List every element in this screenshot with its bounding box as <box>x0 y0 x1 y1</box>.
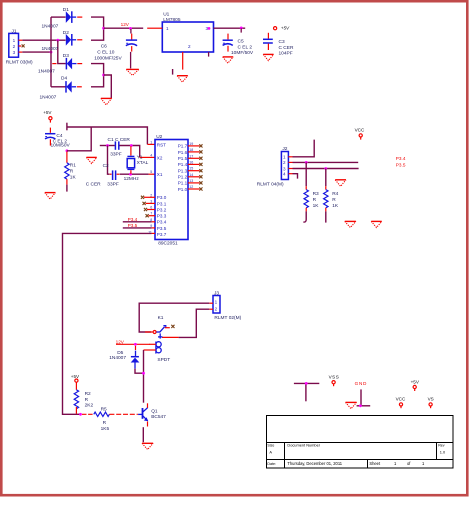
svg-text:R: R <box>103 420 107 426</box>
svg-text:Y1: Y1 <box>137 154 143 160</box>
wire red lead common <box>162 336 179 338</box>
diode D1 1N4007 <box>42 7 83 30</box>
svg-text:12V: 12V <box>121 22 130 27</box>
title block texts <box>267 443 446 466</box>
svg-text:X1: X1 <box>157 172 163 177</box>
wire branch down to D3 <box>58 40 66 63</box>
capacitor C5 C EL 2 10MF/50V <box>223 34 254 57</box>
capacitor C1 C CER 33PF (series) <box>100 137 131 158</box>
wire red lead into NC contact <box>145 331 153 333</box>
svg-text:C EL 2: C EL 2 <box>238 44 253 50</box>
svg-text:2: 2 <box>188 44 191 49</box>
diode D2 1N4007 <box>42 30 83 52</box>
svg-text:R4: R4 <box>332 191 338 197</box>
svg-text:Sheet: Sheet <box>369 461 381 466</box>
power symbol +5V (base pullup) <box>71 374 80 382</box>
pin P3.5 stub <box>152 227 155 229</box>
svg-text:RLMT 02(M): RLMT 02(M) <box>214 315 241 321</box>
crystal Y1 XTAL 12MHz <box>124 146 149 182</box>
pin 2 stub <box>288 161 292 163</box>
svg-text:C EL 10: C EL 10 <box>97 50 114 56</box>
svg-text:GND: GND <box>355 381 368 386</box>
node junction XTAL top <box>130 144 133 147</box>
svg-text:J1: J1 <box>12 28 17 34</box>
svg-text:R: R <box>332 197 336 203</box>
ground (floating 2, below R4) <box>371 221 382 227</box>
relay K1 coil <box>144 342 171 364</box>
svg-text:10M/50V: 10M/50V <box>51 143 71 149</box>
pin X2 stub <box>140 156 155 158</box>
svg-text:R1: R1 <box>70 162 76 168</box>
svg-text:C CER: C CER <box>279 45 294 51</box>
svg-text:+5V: +5V <box>71 374 80 379</box>
pin 1 stub <box>209 302 213 304</box>
svg-text:1K5: 1K5 <box>101 426 110 432</box>
wire J3 pin2 to relay common <box>179 309 210 337</box>
node junction +12V tap <box>102 27 105 30</box>
svg-text:1: 1 <box>13 38 16 43</box>
svg-text:C6: C6 <box>101 43 107 49</box>
svg-text:J3: J3 <box>214 290 219 296</box>
regulator U1 LM7805 <box>162 12 213 52</box>
wire D1 anode lead <box>51 16 66 18</box>
wire DC- bus (D3/D4 left plates) <box>91 64 104 87</box>
svg-text:1.0: 1.0 <box>440 450 446 455</box>
svg-text:U1: U1 <box>163 12 169 18</box>
node junction R1 top <box>66 149 69 152</box>
svg-text:P3.4: P3.4 <box>396 156 406 161</box>
ground (U1 pin2) <box>177 76 188 82</box>
pin 4 stub <box>288 173 292 175</box>
ground (C3) <box>263 54 273 60</box>
svg-text:Q1: Q1 <box>151 408 158 414</box>
U2 right port names <box>178 144 188 192</box>
power symbol VSS <box>329 375 340 387</box>
resistor R4 1K <box>324 169 339 223</box>
svg-text:P1.4: P1.4 <box>178 162 188 167</box>
node junction bridge minus <box>102 74 105 77</box>
svg-text:P1.1: P1.1 <box>178 181 188 186</box>
svg-text:R2: R2 <box>85 391 91 397</box>
wire P3.4 <box>123 221 152 223</box>
resistor R1 1K <box>65 152 77 192</box>
svg-text:P3.2: P3.2 <box>157 207 167 212</box>
svg-text:1N4007: 1N4007 <box>42 23 59 29</box>
svg-text:104PF: 104PF <box>279 51 293 57</box>
svg-text:R5: R5 <box>101 406 107 412</box>
wire P3.5 <box>123 227 152 229</box>
svg-text:3: 3 <box>13 50 16 55</box>
svg-text:1N4007: 1N4007 <box>42 46 59 52</box>
svg-text:2: 2 <box>283 160 286 165</box>
svg-text:Document Number: Document Number <box>287 443 320 448</box>
wire RST top run <box>67 127 147 144</box>
svg-text:P3.7: P3.7 <box>157 232 167 237</box>
svg-text:P1.5: P1.5 <box>178 156 188 161</box>
wire coil bottom to collector line <box>143 350 145 403</box>
svg-text:10MF/50V: 10MF/50V <box>231 50 254 56</box>
ground (bridge return) <box>101 98 112 105</box>
wire pin2 run <box>293 161 359 163</box>
svg-text:C4: C4 <box>56 133 62 139</box>
node junction C1/C2 branch <box>106 144 109 147</box>
svg-text:Rev: Rev <box>438 443 445 447</box>
node junction XTAL bottom <box>129 173 132 176</box>
svg-text:33PF: 33PF <box>110 152 122 158</box>
wire to ground <box>104 75 112 98</box>
svg-text:RST: RST <box>157 142 166 147</box>
svg-text:4: 4 <box>150 153 152 157</box>
wire pin3 to left bus <box>22 51 51 53</box>
svg-text:P3.5: P3.5 <box>128 223 138 228</box>
svg-text:C3: C3 <box>279 39 285 45</box>
pin X1 stub <box>149 173 155 175</box>
wire R1 junction to riser <box>67 127 91 151</box>
svg-text:A: A <box>269 450 272 455</box>
wire pin1 to D2 anode <box>22 39 65 41</box>
svg-text:K1: K1 <box>158 315 164 321</box>
svg-text:1N4007: 1N4007 <box>38 69 55 75</box>
wire DC+ bus (D1/D2 cathodes) <box>91 17 104 40</box>
wire pin4 hook <box>293 174 298 179</box>
svg-text:C5: C5 <box>238 38 244 44</box>
wire +12V feed to coil <box>116 343 150 345</box>
svg-text:R: R <box>85 397 89 403</box>
node junction pin3/bus <box>50 51 53 54</box>
power symbol +5V (reset RC) <box>43 110 52 123</box>
power symbol +5V (bottom) <box>411 379 420 391</box>
wire X1 net <box>120 173 149 175</box>
svg-text:+5V: +5V <box>43 110 52 115</box>
resistor R5 1K5 (series to base) <box>82 406 138 432</box>
ground (Q1 emitter) <box>142 443 153 449</box>
diode D5 1N4007 (flyback) <box>109 346 143 373</box>
ground (floating near J2) <box>335 180 346 187</box>
svg-text:R3: R3 <box>313 191 319 197</box>
U2 left port names <box>157 142 167 237</box>
svg-text:2: 2 <box>13 44 16 49</box>
pin 1 stub <box>19 39 23 41</box>
capacitor C6 C EL 10 1000MF/25V <box>94 29 137 69</box>
pin stub below box <box>208 52 210 57</box>
svg-text:R: R <box>313 197 317 203</box>
wire P3.7 long run to transistor base <box>63 233 152 414</box>
capacitor C3 C CER 104PF <box>263 33 294 57</box>
node junction C5 tap <box>240 27 243 30</box>
pin RST stub <box>147 143 155 145</box>
node junction pin1/D3 branch <box>56 39 59 42</box>
svg-text:1N4007: 1N4007 <box>40 95 57 101</box>
svg-text:P1.2: P1.2 <box>178 175 188 180</box>
ground (C6) <box>126 69 139 75</box>
svg-text:1N4007: 1N4007 <box>109 355 126 361</box>
node junction R3 tap <box>305 161 308 164</box>
wire +12V rail to U1 <box>104 27 144 29</box>
resistor R2 2K2 <box>74 382 93 414</box>
pin 3 output wire <box>214 27 246 29</box>
U2 P3.0-P3.3 stubs with no-connects <box>141 196 155 218</box>
relay K1 SPDT switch <box>153 315 174 339</box>
wire J3 pin1 to relay NC <box>139 303 209 332</box>
wire X2 net: C1 right to X2 <box>119 146 139 158</box>
svg-text:VCC: VCC <box>396 396 406 401</box>
stray tick left of U1 ground <box>172 69 174 75</box>
svg-text:2: 2 <box>215 306 218 311</box>
pin 1 input stub <box>147 27 162 29</box>
svg-text:1: 1 <box>283 155 286 160</box>
wire riser tick at RST net start <box>66 123 68 131</box>
antenna-like tee wire <box>294 383 319 401</box>
connector J3 RLMT 02(M) <box>213 290 242 320</box>
connector J1 RLMT 03(M) <box>6 28 33 65</box>
svg-text:P3.4: P3.4 <box>128 217 138 222</box>
svg-text:SPDT: SPDT <box>157 357 170 363</box>
svg-text:RLMT 03(M): RLMT 03(M) <box>6 59 33 65</box>
wire left anode bus D1-D4 <box>50 17 52 87</box>
ground (floating 1, below R4) <box>345 221 356 227</box>
svg-text:2K2: 2K2 <box>85 403 94 409</box>
capacitor C4 C EL 2 10M/50V <box>45 128 70 149</box>
wire pin1 up stub <box>293 140 315 157</box>
power symbol VCC <box>355 127 365 139</box>
U2 right pin stubs with no-connects <box>188 144 203 190</box>
svg-text:P3.5: P3.5 <box>396 163 406 168</box>
svg-text:C CER: C CER <box>86 181 101 187</box>
svg-text:P1.3: P1.3 <box>178 169 188 174</box>
pin 3 stub <box>19 51 23 53</box>
node junction R2/R5/base net <box>79 413 82 416</box>
pin P3.7 stub <box>152 232 155 234</box>
power symbol VCC (bottom) <box>396 396 406 408</box>
pin 1 stub <box>288 156 292 158</box>
svg-text:1K: 1K <box>332 203 339 209</box>
svg-text:C2: C2 <box>103 163 109 169</box>
wire pin3 run <box>293 168 359 170</box>
ground (C5) <box>223 57 234 63</box>
GND net stub with ground symbol <box>346 389 371 408</box>
capacitor C2 C CER 33PF (series) <box>86 163 120 188</box>
svg-text:89C2051: 89C2051 <box>158 240 178 246</box>
svg-text:XTAL: XTAL <box>137 160 149 166</box>
node junction D5/collector <box>142 372 145 375</box>
IC U2 89C2051 <box>155 134 188 247</box>
pin P3.4 stub <box>152 221 155 223</box>
pin 3 stub <box>288 168 292 170</box>
U2 right pin numbers <box>189 142 193 189</box>
svg-text:Size: Size <box>267 443 274 447</box>
node junction R4 tap <box>324 167 327 170</box>
svg-text:4: 4 <box>283 172 286 177</box>
node junction on tee <box>305 382 308 385</box>
svg-text:P3.1: P3.1 <box>157 201 167 206</box>
svg-text:+5V: +5V <box>281 26 290 31</box>
svg-text:R: R <box>70 168 74 174</box>
wire D4 anode lead <box>51 86 66 88</box>
svg-text:J2: J2 <box>282 146 287 152</box>
svg-text:P1.7: P1.7 <box>178 144 188 149</box>
no-connect X on J1 pin 2 <box>22 44 25 47</box>
node junction C6 tap <box>129 27 132 30</box>
svg-text:P1.6: P1.6 <box>178 150 188 155</box>
svg-text:1K: 1K <box>70 174 77 180</box>
svg-text:1: 1 <box>150 140 152 144</box>
resistor R3 1K <box>303 162 319 222</box>
pin 2 stub <box>209 308 213 310</box>
svg-text:+5V: +5V <box>411 379 420 384</box>
pin 2 ground lead <box>182 52 184 70</box>
wire stub below C5 junction <box>240 28 242 32</box>
svg-text:P3.3: P3.3 <box>157 214 167 219</box>
svg-text:1: 1 <box>215 299 218 304</box>
U2 left pin numbers <box>148 140 152 234</box>
svg-text:1: 1 <box>166 26 169 31</box>
wire down to C2 <box>108 146 110 175</box>
svg-text:Thursday, December 01, 2011: Thursday, December 01, 2011 <box>287 461 342 466</box>
svg-text:P3.4: P3.4 <box>157 220 167 225</box>
svg-text:X2: X2 <box>157 155 163 160</box>
svg-text:P1.0: P1.0 <box>178 187 188 192</box>
svg-text:33PF: 33PF <box>107 181 119 187</box>
svg-text:VS: VS <box>428 396 434 401</box>
svg-text:VSS: VSS <box>329 375 340 380</box>
diode D3 1N4007 (mirrored) <box>38 53 82 74</box>
power symbol VS <box>428 396 434 408</box>
diode D4 1N4007 (mirrored) <box>40 76 82 101</box>
svg-text:12MHz: 12MHz <box>124 176 140 182</box>
transistor Q1 BC547 <box>138 403 166 426</box>
node junction D5 tap on 12V <box>134 343 137 346</box>
svg-text:P3.0: P3.0 <box>157 195 167 200</box>
svg-text:VCC: VCC <box>355 127 365 132</box>
power symbol +5V (near C3) <box>274 26 291 31</box>
svg-text:P3.5: P3.5 <box>157 226 167 231</box>
ground (R1, offset left) <box>45 193 56 200</box>
svg-text:BC547: BC547 <box>151 414 166 420</box>
title block <box>267 416 454 469</box>
ground (floating, below riser) <box>86 157 96 163</box>
svg-text:1000MF/25V: 1000MF/25V <box>94 56 122 62</box>
svg-text:1K: 1K <box>313 203 320 209</box>
wire emitter to ground <box>142 427 144 442</box>
svg-text:Date:: Date: <box>267 462 276 466</box>
node dot at pin3 <box>208 27 211 30</box>
svg-text:D4: D4 <box>61 76 67 82</box>
connector J2 RLMT 04(M) <box>257 146 289 187</box>
svg-text:RLMT 04(M): RLMT 04(M) <box>257 182 284 188</box>
svg-text:5: 5 <box>150 170 152 174</box>
pin 2 stub <box>19 45 22 47</box>
